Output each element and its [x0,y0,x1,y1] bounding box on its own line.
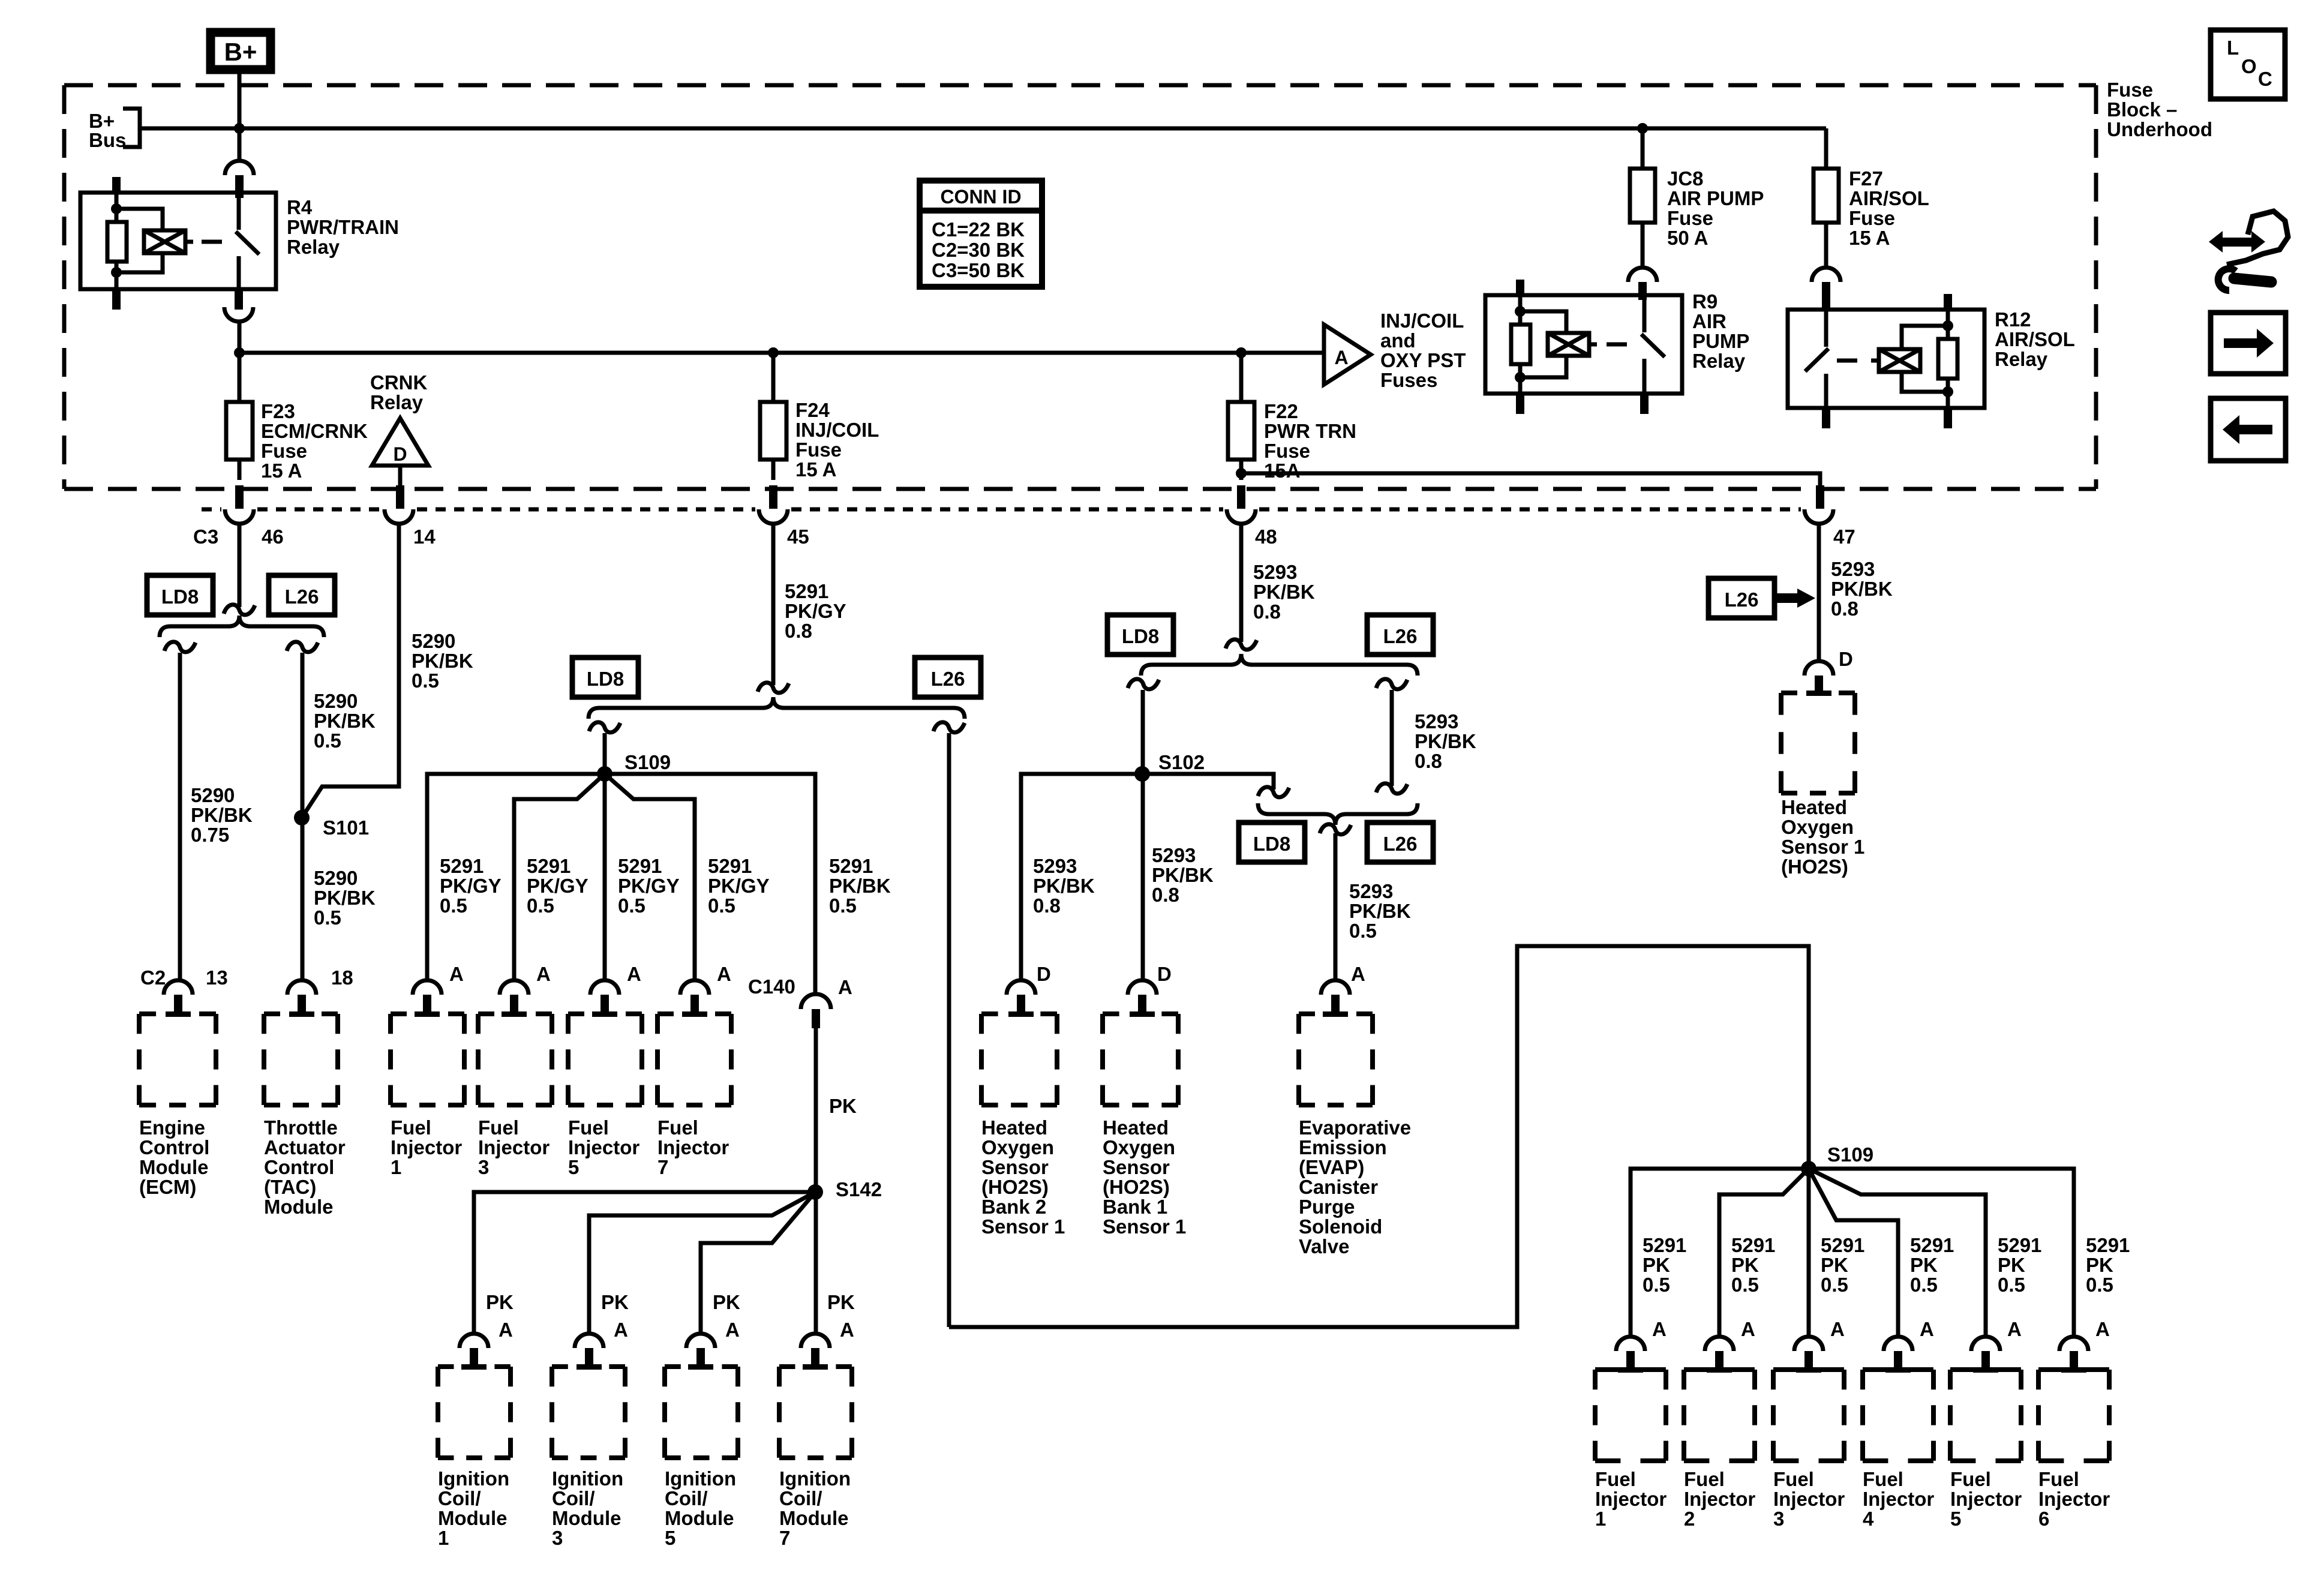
svg-text:A: A [2095,1318,2110,1340]
svg-text:PK: PK [827,1291,855,1313]
svg-text:5293: 5293 [1349,880,1393,902]
svg-text:5291: 5291 [1821,1234,1864,1256]
svg-text:15A: 15A [1264,460,1301,482]
svg-text:INJ/COIL: INJ/COIL [1380,310,1464,332]
svg-text:L26: L26 [931,668,965,690]
wire to fuel injector 1 [1631,1169,1809,1337]
relay R12 AIR/SOL [1788,294,1984,428]
svg-text:0.5: 0.5 [618,894,645,917]
wire PK to S142 [814,1028,818,1334]
connector 46 [225,509,254,524]
svg-text:PK: PK [1643,1254,1670,1276]
svg-text:Module: Module [139,1156,208,1178]
svg-text:Module: Module [665,1507,734,1529]
svg-text:Fuse: Fuse [1667,207,1713,229]
connector below R4 [235,289,243,307]
svg-text:Fuel: Fuel [568,1116,609,1139]
svg-text:0.8: 0.8 [1033,894,1061,917]
svg-text:A: A [1920,1318,1934,1340]
fuel injector 4 [1863,1367,1933,1372]
svg-text:Coil/: Coil/ [665,1487,708,1509]
svg-text:3: 3 [478,1156,489,1178]
svg-text:5291: 5291 [708,855,752,877]
svg-text:CRNK: CRNK [370,371,427,394]
svg-text:Solenoid: Solenoid [1299,1215,1382,1238]
svg-text:0.5: 0.5 [708,894,735,917]
fuel injector 1 [391,1011,464,1016]
svg-text:0.5: 0.5 [527,894,554,917]
svg-text:6: 6 [2038,1508,2049,1530]
svg-text:Ignition: Ignition [779,1467,851,1490]
wire L26 branch to S109 loop [947,733,951,1327]
ignition coil/module 1 [438,1364,511,1369]
svg-text:A: A [2007,1318,2022,1340]
Engine Control Module (ECM) [139,1011,216,1016]
svg-text:O: O [2241,55,2257,77]
svg-text:A: A [840,1319,854,1341]
svg-text:Injector: Injector [391,1136,462,1158]
svg-text:PK: PK [1998,1254,2025,1276]
CONN ID table [920,181,1042,287]
svg-text:0.5: 0.5 [829,894,857,917]
wire 5291 PK/BK 0.5 to C140 [605,774,815,993]
fuel injector 3 [1773,1367,1844,1372]
svg-text:Emission: Emission [1299,1136,1387,1158]
svg-text:Module: Module [552,1507,621,1529]
wire to S109 [603,733,607,774]
svg-text:C1=22 BK: C1=22 BK [932,218,1025,241]
svg-text:PK/BK: PK/BK [1152,864,1214,886]
svg-text:Throttle: Throttle [264,1116,338,1139]
ignition coil/module 3 [552,1364,625,1369]
svg-text:Bus: Bus [89,129,126,151]
svg-text:PK/BK: PK/BK [191,804,253,826]
svg-text:5291: 5291 [440,855,484,877]
svg-text:ECM/CRNK: ECM/CRNK [261,420,368,442]
svg-text:5291: 5291 [829,855,873,877]
splice S142 [807,1184,823,1200]
svg-text:AIR PUMP: AIR PUMP [1667,187,1764,209]
svg-text:A: A [499,1319,513,1341]
svg-text:0.8: 0.8 [1152,884,1179,906]
svg-text:0.5: 0.5 [440,894,467,917]
heated oxygen sensor bank 2 [981,1011,1057,1016]
svg-text:Fuel: Fuel [2038,1468,2079,1490]
connector into R12 [1812,268,1840,282]
svg-text:A: A [838,976,852,998]
option L26 [1367,615,1433,655]
svg-text:0.8: 0.8 [1415,750,1442,772]
svg-text:PK: PK [486,1291,514,1313]
svg-text:45: 45 [787,526,809,548]
wire 5290 PK/BK 0.75 to ECM [178,653,182,980]
svg-text:PK: PK [1821,1254,1848,1276]
fuse F22 PWR TRN [1236,347,1247,358]
svg-text:A: A [627,963,641,985]
fuse block underhood dashed border [64,85,2096,489]
svg-text:D: D [1157,963,1172,985]
svg-text:18: 18 [331,966,353,989]
svg-text:3: 3 [1773,1508,1784,1530]
svg-text:and: and [1380,329,1416,352]
svg-text:Evaporative: Evaporative [1299,1116,1411,1139]
svg-text:1: 1 [391,1156,401,1178]
svg-text:5291: 5291 [527,855,571,877]
fuse F27 AIR/SOL [1824,128,1828,169]
fuse F24 INJ/COIL [768,347,779,358]
wire to fuel injector 6 [1809,1169,2074,1337]
wire LD8 branch to S102 [1141,690,1145,980]
svg-text:F27: F27 [1849,167,1883,190]
svg-text:Fuse: Fuse [2107,79,2153,101]
svg-text:5291: 5291 [1731,1234,1775,1256]
svg-text:5290: 5290 [314,690,358,712]
svg-text:5: 5 [568,1156,579,1178]
svg-text:PK/BK: PK/BK [1033,875,1095,897]
wire 46 to option split [238,524,242,607]
svg-text:Sensor 1: Sensor 1 [1781,836,1864,858]
svg-text:LD8: LD8 [1253,833,1290,855]
svg-text:5293: 5293 [1253,561,1297,583]
fuel injector 6 [2038,1367,2109,1372]
svg-text:PWR TRN: PWR TRN [1264,420,1356,442]
svg-text:PK/BK: PK/BK [1831,578,1893,600]
svg-text:5291: 5291 [1643,1234,1686,1256]
svg-text:AIR/SOL: AIR/SOL [1995,328,2075,350]
fuel injector 3 [478,1011,552,1016]
svg-text:LD8: LD8 [587,668,624,690]
svg-text:AIR: AIR [1692,310,1727,332]
svg-text:5291: 5291 [1998,1234,2041,1256]
svg-text:F23: F23 [261,400,295,422]
svg-text:5293: 5293 [1831,558,1875,580]
svg-text:PK/BK: PK/BK [412,650,473,672]
svg-text:A: A [1652,1318,1667,1340]
heated oxygen sensor 1 (HO2S) [1781,691,1855,695]
svg-text:Relay: Relay [370,391,424,413]
svg-text:13: 13 [206,966,228,989]
wire 5293 PK/BK 0.5 to EVAP [1334,833,1338,980]
svg-text:0.5: 0.5 [314,730,341,752]
svg-text:LD8: LD8 [161,586,199,608]
svg-text:Ignition: Ignition [665,1467,736,1490]
svg-text:S109: S109 [1827,1143,1873,1166]
svg-text:S142: S142 [836,1178,882,1200]
option split brace [1141,654,1418,676]
wire to fuel injector 1 [427,774,605,980]
svg-text:50 A: 50 A [1667,227,1708,249]
node: B+ bus junction [234,123,245,134]
wire to fuel injector 5 [1809,1169,1986,1337]
ignition coil/module 5 [665,1364,738,1369]
svg-text:5293: 5293 [1033,855,1077,877]
svg-text:0.5: 0.5 [1821,1274,1848,1296]
svg-text:0.8: 0.8 [1831,598,1858,620]
svg-text:F22: F22 [1264,400,1298,422]
svg-text:PK/BK: PK/BK [314,710,376,732]
svg-text:5291: 5291 [2086,1234,2130,1256]
connector into R4 relay [225,161,254,175]
wire S102 to lower brace [1142,774,1274,789]
svg-text:0.5: 0.5 [1643,1274,1670,1296]
option L26 [915,658,981,697]
svg-text:0.75: 0.75 [191,824,229,846]
svg-text:14: 14 [413,526,436,548]
svg-text:D: D [1037,963,1051,985]
svg-text:Fuel: Fuel [478,1116,519,1139]
svg-text:1: 1 [438,1527,449,1549]
svg-text:Purge: Purge [1299,1196,1355,1218]
svg-text:Coil/: Coil/ [438,1487,481,1509]
fuse F23 ECM/CRNK [238,402,242,480]
svg-text:Relay: Relay [1692,350,1746,372]
wire to fuel injector 4 [1809,1169,1898,1337]
wrench/hood icon [2227,211,2288,265]
svg-text:PK: PK [601,1291,629,1313]
svg-text:Fuse: Fuse [795,439,842,461]
fuel injector 2 [1684,1367,1755,1372]
svg-text:3: 3 [552,1527,563,1549]
svg-text:47: 47 [1833,526,1855,548]
svg-text:5293: 5293 [1152,844,1196,866]
svg-text:Sensor 1: Sensor 1 [981,1215,1065,1238]
svg-text:Fuel: Fuel [1684,1468,1725,1490]
option split brace [588,697,965,719]
svg-text:Fuel: Fuel [1950,1468,1991,1490]
svg-text:C3: C3 [193,526,218,548]
svg-text:R12: R12 [1995,308,2031,331]
svg-text:Heated: Heated [1781,796,1847,818]
relay R4 PWR/TRAIN [80,177,276,310]
wire 48 5293 PK/BK 0.8 [1239,524,1244,642]
svg-text:C140: C140 [748,975,795,998]
svg-text:1: 1 [1595,1508,1606,1530]
svg-text:D: D [1839,648,1853,670]
svg-text:Fuel: Fuel [391,1116,431,1139]
svg-text:Coil/: Coil/ [552,1487,595,1509]
svg-text:B+: B+ [224,38,257,66]
svg-text:A: A [717,963,731,985]
svg-text:15 A: 15 A [261,460,302,482]
svg-text:Module: Module [779,1507,848,1529]
svg-text:A: A [725,1319,740,1341]
option LD8 [147,575,213,615]
svg-text:Fuel: Fuel [1863,1468,1903,1490]
svg-text:48: 48 [1255,526,1277,548]
option L26 [269,575,335,615]
svg-text:0.5: 0.5 [1349,920,1377,942]
svg-text:Bank 1: Bank 1 [1103,1196,1167,1218]
svg-text:Bank 2: Bank 2 [981,1196,1046,1218]
connector 47 [1804,509,1833,524]
svg-text:A: A [1741,1318,1755,1340]
wire to fuel injector 5 [603,774,607,980]
svg-text:PK/BK: PK/BK [314,887,376,909]
wire: R4 output [238,322,242,402]
fuel injector 7 [657,1011,731,1016]
svg-text:5: 5 [1950,1508,1961,1530]
svg-text:15 A: 15 A [1849,227,1890,249]
svg-text:A: A [449,963,464,985]
svg-text:Fuel: Fuel [1773,1468,1814,1490]
svg-text:Fuses: Fuses [1380,369,1437,391]
svg-text:(HO2S): (HO2S) [1781,855,1848,878]
svg-text:5290: 5290 [412,630,455,652]
svg-text:JC8: JC8 [1667,167,1704,190]
left arrow box icon [2211,398,2286,461]
wire to fuel injector 7 [605,774,695,980]
svg-text:15 A: 15 A [795,458,836,481]
svg-text:Control: Control [264,1156,334,1178]
svg-text:PWR/TRAIN: PWR/TRAIN [287,216,399,238]
svg-text:A: A [536,963,551,985]
svg-text:Relay: Relay [287,236,340,258]
svg-text:Module: Module [438,1507,507,1529]
svg-text:7: 7 [779,1527,790,1549]
svg-text:C3=50 BK: C3=50 BK [932,259,1025,281]
B+ power feed box [211,32,271,70]
svg-text:L26: L26 [1725,589,1759,611]
svg-text:2: 2 [1684,1508,1695,1530]
svg-text:PUMP: PUMP [1692,330,1749,352]
wire 5290 PK/BK 0.5 to TAC [301,653,305,980]
wire 45 5291 PK/GY 0.8 [771,524,776,685]
splice S109 (bottom) [1801,1161,1816,1176]
wire to fuel injector 3 [514,774,605,980]
svg-text:0.8: 0.8 [1253,601,1281,623]
wire to ignition coil 5 [701,1192,815,1334]
svg-text:OXY PST: OXY PST [1380,349,1466,371]
svg-text:C2=30 BK: C2=30 BK [932,239,1025,261]
svg-text:5290: 5290 [191,784,235,806]
svg-text:Oxygen: Oxygen [1781,816,1854,838]
svg-text:Coil/: Coil/ [779,1487,822,1509]
svg-text:Injector: Injector [1950,1488,2022,1510]
splice S102 [1134,766,1150,782]
wire to fuel injector 3 [1807,1169,1811,1337]
svg-text:LD8: LD8 [1122,625,1159,647]
svg-text:0.5: 0.5 [412,670,439,692]
svg-text:C2: C2 [140,966,166,989]
svg-text:Canister: Canister [1299,1176,1378,1198]
svg-text:PK: PK [713,1291,740,1313]
svg-text:A: A [1830,1318,1845,1340]
connector 45 [759,509,788,524]
svg-text:AIR/SOL: AIR/SOL [1849,187,1929,209]
wire to ignition coil 1 [474,1192,815,1334]
right arrow box icon [2211,313,2286,374]
svg-text:PK/GY: PK/GY [527,875,588,897]
connector into R9 [1628,268,1657,282]
svg-text:Relay: Relay [1995,348,2048,370]
wire to connector 47 [1241,473,1820,487]
option split brace C3 [160,616,324,637]
svg-text:Ignition: Ignition [552,1467,623,1490]
svg-text:Injector: Injector [1773,1488,1845,1510]
wire: B+ bus horizontal [140,127,1826,131]
svg-text:7: 7 [657,1156,668,1178]
option LD8 [1239,822,1305,862]
svg-text:PK: PK [829,1095,857,1117]
svg-text:A: A [614,1319,628,1341]
svg-text:Injector: Injector [568,1136,639,1158]
svg-text:Actuator: Actuator [264,1136,346,1158]
svg-text:0.5: 0.5 [1910,1274,1938,1296]
svg-text:Underhood: Underhood [2107,118,2212,140]
svg-text:(TAC): (TAC) [264,1176,316,1198]
option LD8 [1107,615,1173,655]
connector 14 [385,509,413,524]
svg-text:5: 5 [665,1527,675,1549]
fuel injector 1 [1595,1367,1666,1372]
svg-text:Injector: Injector [1684,1488,1755,1510]
svg-text:R9: R9 [1692,290,1718,313]
svg-text:46: 46 [262,526,284,548]
heated oxygen sensor bank 1 [1103,1011,1178,1016]
svg-text:Control: Control [139,1136,209,1158]
lower option merge brace [1258,803,1418,825]
svg-text:R4: R4 [287,196,313,218]
svg-text:CONN ID: CONN ID [940,186,1021,208]
svg-text:Engine: Engine [139,1116,205,1139]
svg-text:Sensor 1: Sensor 1 [1103,1215,1186,1238]
svg-text:PK/BK: PK/BK [1415,730,1476,752]
svg-text:S109: S109 [624,751,671,773]
connector 48 [1227,509,1256,524]
svg-text:Heated: Heated [1103,1116,1169,1139]
option LD8 [572,658,638,697]
svg-text:(HO2S): (HO2S) [1103,1176,1170,1198]
svg-text:Fuse: Fuse [1264,440,1310,462]
EVAP canister purge solenoid valve [1299,1011,1373,1016]
fuse JC8 AIR PUMP [1641,128,1645,169]
svg-text:Injector: Injector [2038,1488,2110,1510]
splice S101 [294,810,310,825]
svg-text:(EVAP): (EVAP) [1299,1156,1364,1178]
splice S109 [597,766,612,782]
wire 14 CRNK 5290 PK/BK 0.5 [302,524,399,818]
svg-text:F24: F24 [795,399,830,421]
svg-text:Injector: Injector [1863,1488,1934,1510]
wire to fuel injector 2 [1719,1169,1809,1337]
svg-text:Injector: Injector [1595,1488,1667,1510]
wire to ignition coil 3 [589,1192,815,1334]
option L26 [1367,822,1433,862]
svg-text:5291: 5291 [618,855,662,877]
svg-text:L26: L26 [285,586,319,608]
svg-text:PK: PK [1910,1254,1938,1276]
svg-text:5293: 5293 [1415,710,1458,733]
Throttle Actuator Control (TAC) Module [264,1011,338,1016]
svg-text:Module: Module [264,1196,333,1218]
svg-text:Fuse: Fuse [1849,207,1895,229]
svg-text:D: D [393,443,407,465]
svg-text:Injector: Injector [478,1136,550,1158]
svg-text:0.5: 0.5 [2086,1274,2113,1296]
fuel injector 5 [568,1011,642,1016]
svg-text:0.5: 0.5 [314,906,341,929]
svg-text:(ECM): (ECM) [139,1176,196,1198]
svg-text:0.5: 0.5 [1731,1274,1759,1296]
svg-text:PK/GY: PK/GY [785,600,846,622]
svg-text:A: A [1334,347,1348,368]
ignition coil/module 7 [779,1364,852,1369]
svg-text:Oxygen: Oxygen [981,1136,1054,1158]
connector line C3 (dotted) [202,508,1801,512]
svg-text:PK/BK: PK/BK [1349,900,1411,922]
relay R9 AIR PUMP [1485,280,1682,414]
svg-text:INJ/COIL: INJ/COIL [795,419,879,441]
